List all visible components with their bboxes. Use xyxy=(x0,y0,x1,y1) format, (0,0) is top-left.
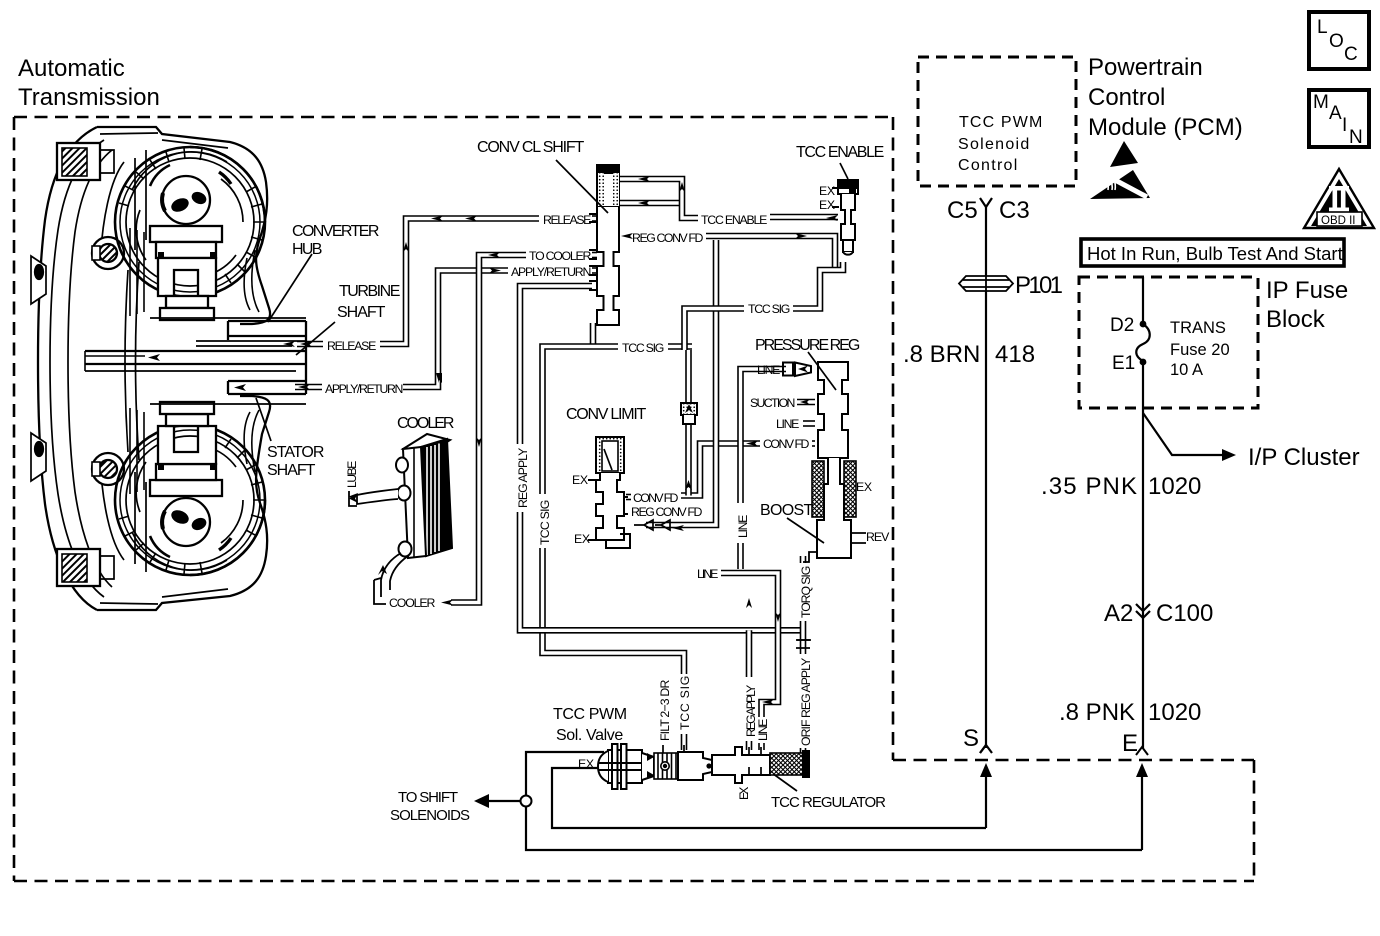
svg-text:TCC SIG: TCC SIG xyxy=(748,302,790,316)
svg-text:Fuse 20: Fuse 20 xyxy=(1170,341,1230,359)
svg-text:CONV CL SHIFT: CONV CL SHIFT xyxy=(477,139,585,156)
svg-text:RELEASE: RELEASE xyxy=(327,339,376,353)
svg-text:.8 PNK: .8 PNK xyxy=(1059,699,1135,726)
svg-text:FILT 2−3 DR: FILT 2−3 DR xyxy=(658,680,672,741)
svg-text:TURBINE: TURBINE xyxy=(339,283,400,300)
svg-text:LINE: LINE xyxy=(757,363,780,377)
svg-text:C: C xyxy=(1344,44,1358,65)
svg-text:E1: E1 xyxy=(1112,353,1135,374)
svg-text:PRESSURE REG: PRESSURE REG xyxy=(755,337,860,354)
svg-text:TCC ENABLE: TCC ENABLE xyxy=(701,213,767,227)
svg-text:CONVERTER: CONVERTER xyxy=(292,223,379,240)
svg-text:LUBE: LUBE xyxy=(345,461,359,488)
svg-text:SHAFT: SHAFT xyxy=(267,462,316,479)
svg-text:Block: Block xyxy=(1266,306,1326,333)
svg-text:P101: P101 xyxy=(1015,272,1063,299)
svg-text:LINE: LINE xyxy=(736,515,750,538)
svg-text:RELEASE: RELEASE xyxy=(543,213,591,227)
svg-text:Powertrain: Powertrain xyxy=(1088,54,1203,81)
svg-text:E: E xyxy=(1122,730,1138,757)
svg-text:REV: REV xyxy=(866,530,890,544)
svg-text:REG CONV FD: REG CONV FD xyxy=(632,231,703,245)
svg-text:APPLY/RETURN: APPLY/RETURN xyxy=(325,382,403,396)
svg-text:O: O xyxy=(1329,31,1344,52)
svg-text:TCC SIG: TCC SIG xyxy=(678,676,692,730)
svg-text:L: L xyxy=(1317,17,1328,38)
svg-text:1020: 1020 xyxy=(1148,699,1201,726)
svg-text:APPLY/RETURN: APPLY/RETURN xyxy=(511,265,591,279)
svg-text:ORIF REG APPLY: ORIF REG APPLY xyxy=(799,658,813,746)
svg-text:Module (PCM): Module (PCM) xyxy=(1088,114,1243,141)
svg-text:COOLER: COOLER xyxy=(389,596,435,610)
svg-text:.35 PNK: .35 PNK xyxy=(1041,473,1137,500)
svg-text:BOOST: BOOST xyxy=(760,502,814,519)
svg-text:Control: Control xyxy=(958,157,1017,174)
svg-text:Transmission: Transmission xyxy=(18,84,160,111)
svg-text:STATOR: STATOR xyxy=(267,444,324,461)
svg-text:EX: EX xyxy=(578,757,594,771)
svg-text:TORQ SIG: TORQ SIG xyxy=(799,566,813,618)
svg-text:N: N xyxy=(1349,127,1363,148)
svg-text:REG APPLY: REG APPLY xyxy=(516,448,530,508)
svg-text:Hot In Run, Bulb Test And Star: Hot In Run, Bulb Test And Start xyxy=(1087,243,1343,264)
svg-text:EX: EX xyxy=(572,473,588,487)
svg-text:Sol. Valve: Sol. Valve xyxy=(556,727,623,744)
svg-text:A: A xyxy=(1329,103,1342,124)
svg-text:D2: D2 xyxy=(1110,315,1134,336)
svg-text:1020: 1020 xyxy=(1148,473,1201,500)
svg-text:CONV LIMIT: CONV LIMIT xyxy=(566,406,647,423)
svg-text:TCC PWM: TCC PWM xyxy=(553,706,627,723)
svg-text:SHAFT: SHAFT xyxy=(337,304,386,321)
svg-text:A2: A2 xyxy=(1104,600,1133,627)
svg-text:EX: EX xyxy=(574,532,590,546)
svg-text:LINE: LINE xyxy=(756,719,770,741)
svg-text:I: I xyxy=(1342,115,1347,136)
svg-text:IP Fuse: IP Fuse xyxy=(1266,277,1348,304)
svg-text:C3: C3 xyxy=(999,197,1030,224)
svg-text:LINE: LINE xyxy=(697,567,718,581)
svg-text:.8 BRN: .8 BRN xyxy=(903,341,980,368)
svg-text:TCC REGULATOR: TCC REGULATOR xyxy=(771,794,886,811)
svg-text:OBD II: OBD II xyxy=(1321,215,1356,227)
svg-text:TCC ENABLE: TCC ENABLE xyxy=(796,144,884,161)
svg-text:EX: EX xyxy=(819,184,835,198)
svg-text:SUCTION: SUCTION xyxy=(750,396,795,410)
svg-text:M: M xyxy=(1313,92,1329,113)
svg-text:Automatic: Automatic xyxy=(18,55,125,82)
svg-text:EX: EX xyxy=(819,198,835,212)
svg-text:TCC PWM: TCC PWM xyxy=(959,114,1042,131)
svg-text:TCC SIG: TCC SIG xyxy=(622,341,664,355)
svg-text:LINE: LINE xyxy=(776,417,799,431)
svg-text:EX: EX xyxy=(856,480,872,494)
svg-text:REG CONV FD: REG CONV FD xyxy=(631,505,702,519)
svg-text:C5: C5 xyxy=(947,197,978,224)
svg-text:CONV FD: CONV FD xyxy=(763,437,809,451)
svg-text:I/P Cluster: I/P Cluster xyxy=(1248,444,1360,471)
svg-text:TO SHIFT: TO SHIFT xyxy=(398,789,458,806)
svg-text:TRANS: TRANS xyxy=(1170,319,1226,337)
svg-text:TO COOLER: TO COOLER xyxy=(529,249,591,263)
svg-text:10 A: 10 A xyxy=(1170,361,1203,379)
svg-text:S: S xyxy=(963,725,979,752)
svg-text:418: 418 xyxy=(995,341,1035,368)
svg-text:C100: C100 xyxy=(1156,600,1213,627)
svg-text:HUB: HUB xyxy=(292,241,322,258)
svg-text:Control: Control xyxy=(1088,84,1165,111)
svg-text:TCC SIG: TCC SIG xyxy=(538,500,552,545)
svg-text:CONV FD: CONV FD xyxy=(633,491,678,505)
svg-text:EX: EX xyxy=(737,787,751,800)
svg-text:COOLER: COOLER xyxy=(397,415,454,432)
svg-text:SOLENOIDS: SOLENOIDS xyxy=(390,807,470,824)
